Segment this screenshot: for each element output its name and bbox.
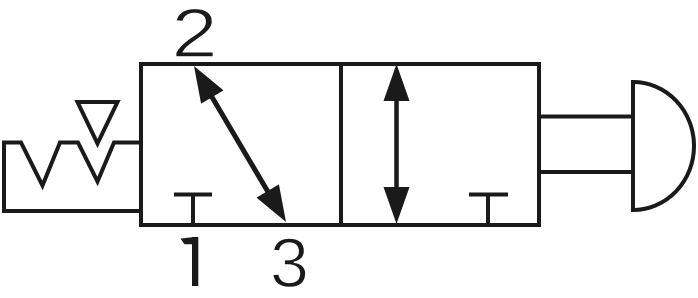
valve body outer rectangle: [141, 64, 539, 225]
svg-text:2: 2: [171, 0, 217, 72]
vertical flow arrow shaft (right chamber): [394, 98, 399, 190]
detent pointer triangle: [78, 102, 118, 144]
diagonal arrowhead lower (at port 3): [257, 184, 287, 222]
svg-text:3: 3: [270, 224, 309, 298]
vertical arrowhead bottom: [384, 187, 410, 224]
diagonal flow arrow shaft (port 2 to 3): [209, 92, 271, 197]
port label 1: [181, 237, 199, 286]
chamber divider line: [339, 64, 343, 225]
vertical arrowhead top: [384, 64, 410, 101]
push button stem lower line: [539, 170, 633, 174]
blocked port symbol right chamber (T): [469, 193, 508, 224]
blocked port 1 symbol (T): [174, 193, 212, 224]
push button stem upper line: [539, 115, 633, 119]
detent (raster) notched block: [4, 143, 141, 212]
diagonal arrowhead upper (at port 2): [194, 66, 224, 104]
push button mushroom head: [633, 82, 694, 210]
